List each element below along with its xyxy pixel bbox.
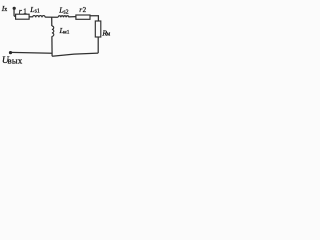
bottom rail left segment [11, 51, 53, 54]
bottom rail right segment [52, 53, 98, 56]
label Uvyh (output voltage) [2, 55, 23, 66]
node junction vertical [51, 17, 53, 26]
label Rm [101, 28, 110, 37]
svg-text:вых: вых [8, 55, 23, 65]
wire r2 to corner and down to Rm [90, 16, 98, 21]
wire Rm to bottom rail [97, 37, 99, 53]
svg-text:2: 2 [83, 6, 87, 14]
resistor r1 [16, 14, 30, 19]
label Ls1 [29, 5, 40, 15]
terminal dot top-left [13, 7, 16, 10]
label r1 [19, 6, 27, 15]
inductor Ls1 [33, 16, 46, 18]
label r2 [79, 5, 86, 14]
terminal dot bottom-left [9, 51, 12, 54]
wire r1 to Ls1 [29, 16, 32, 18]
svg-text:1: 1 [23, 7, 27, 15]
wire Lm1 to bottom rail [51, 36, 53, 56]
label Ls2 [58, 6, 68, 16]
svg-text:х: х [4, 7, 7, 13]
svg-text:м: м [106, 32, 110, 38]
svg-text:s1: s1 [35, 8, 40, 14]
wire to r1 [14, 15, 16, 17]
inductor Ls2 [58, 16, 69, 18]
wire Ls2 to r2 [69, 16, 76, 18]
label Lm1 [59, 26, 70, 35]
resistor Rm (vertical) [95, 21, 101, 37]
inductor Lm1 (vertical coil, bumps to the right) [52, 26, 54, 36]
label Ix (input current) [1, 4, 8, 13]
svg-text:s2: s2 [63, 9, 68, 15]
wire input stub vertical [13, 8, 15, 16]
svg-text:м1: м1 [63, 30, 69, 36]
wire Ls1 to Ls2 with junction [45, 16, 58, 18]
resistor r2 [76, 15, 90, 19]
